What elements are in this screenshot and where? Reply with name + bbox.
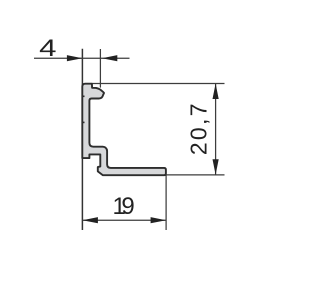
svg-text:20,7: 20,7	[186, 101, 212, 155]
svg-text:4: 4	[39, 34, 56, 61]
